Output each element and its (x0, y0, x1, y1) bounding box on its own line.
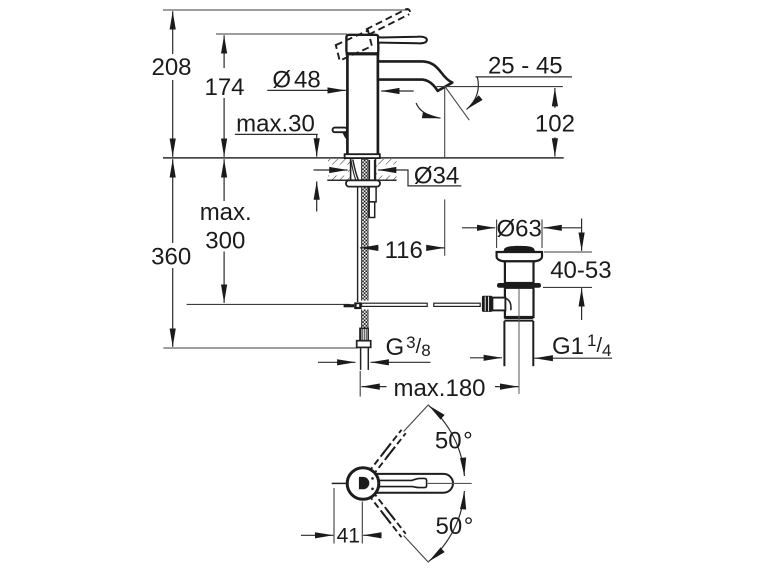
lever cap dashed (raised position) (336, 31, 372, 61)
drain seal ring (497, 283, 541, 288)
svg-text:40-53: 40-53 (550, 257, 611, 284)
svg-text:41: 41 (337, 524, 360, 547)
drain body lower (505, 288, 534, 317)
leader arc for 25-45 (467, 77, 479, 109)
svg-text:50°: 50° (435, 428, 473, 455)
top view: centerline right (428, 482, 472, 484)
extension line bottom (360) (163, 347, 358, 349)
top view: lever down extension (404, 536, 429, 563)
drain tailpipe (503, 321, 505, 366)
horizontal pop-up rod (right segment) (434, 303, 480, 306)
dimension max.180 (361, 386, 386, 388)
top view: handle inner tongue (375, 478, 427, 487)
dimension G1 1/4 (470, 357, 502, 359)
svg-text:25 - 45: 25 - 45 (488, 53, 563, 80)
dimension G3/8 (318, 361, 356, 363)
Ø34 leader and label (400, 170, 461, 186)
pop-up rod guide tube (368, 160, 370, 187)
deck line (163, 157, 564, 159)
svg-text:50°: 50° (435, 513, 473, 540)
top view: faucet body circle (347, 468, 379, 500)
G3/8 pipe (360, 347, 362, 370)
G3/8 extension line (359, 371, 361, 397)
top view: lever up extension (404, 405, 429, 432)
lever solid (378, 37, 427, 44)
svg-text:max.180: max.180 (393, 375, 485, 402)
rotation arc upper 50° (429, 405, 465, 476)
dimension 208 line (172, 11, 174, 54)
svg-text:116: 116 (385, 237, 423, 264)
white gap at rod/hose crossing (361, 301, 369, 310)
dimension max.300 line (223, 159, 225, 201)
rotation arc lower 50° (429, 491, 465, 562)
dimension 174 line (223, 35, 225, 68)
drain flange (497, 252, 542, 261)
drain body upper (505, 261, 534, 283)
faucet body (347, 54, 378, 155)
svg-text:max.: max. (200, 199, 252, 226)
braided supply hose (361, 160, 368, 329)
dimension Ø63 (462, 227, 495, 229)
deck cross-section hatch right (375, 159, 396, 180)
pull-rod knob on body (333, 128, 348, 133)
dimension 40-53 (581, 219, 583, 251)
svg-text:max.30: max.30 (236, 111, 315, 138)
svg-text:174: 174 (204, 74, 244, 101)
deck bottom line (327, 179, 396, 181)
svg-text:360: 360 (151, 244, 191, 271)
hose end knurl fitting (360, 328, 368, 340)
shank hole edges (350, 159, 352, 180)
drain flange extension lines (496, 220, 498, 249)
drain centerline lower (518, 289, 520, 394)
spout angle diagonal (445, 86, 470, 120)
locknut under deck (346, 180, 380, 186)
top view: lever dashed up (373, 433, 406, 476)
white halo for Ø34 arrows (312, 165, 348, 176)
top view: centerline left pin (332, 482, 347, 484)
drain stopper cap (504, 246, 535, 252)
drain knurled knob (482, 296, 493, 312)
top view: lever dashed down (373, 491, 406, 534)
shank funnel curve (353, 160, 359, 181)
spout (378, 61, 452, 91)
extension line top (208) (163, 9, 409, 11)
dimension 360 line (172, 159, 174, 243)
small rotation arrow at spout (416, 103, 440, 118)
top view: cartridge D mark (359, 477, 369, 489)
pop-up rod clamp pin (344, 304, 355, 307)
svg-text:Ø48: Ø48 (272, 67, 320, 94)
top view: handle (372, 474, 453, 493)
spout reference vertical line (444, 86, 446, 157)
hose nut (357, 341, 371, 348)
svg-text:208: 208 (151, 54, 191, 81)
dimension 116 (360, 247, 379, 249)
dimension 41 extension lines (333, 488, 335, 544)
pop-up rod clamp (354, 302, 361, 309)
svg-text:Ø63: Ø63 (497, 216, 542, 243)
svg-text:Ø34: Ø34 (414, 162, 459, 189)
drain centerline (518, 256, 520, 394)
extension line (max.300 bottom) (187, 303, 350, 305)
deck cross-section hatch left (328, 159, 351, 180)
svg-text:102: 102 (535, 111, 575, 138)
Ø34 arrows (314, 169, 348, 171)
faucet base plate (345, 154, 380, 158)
cartridge cap (346, 35, 378, 54)
lever dashed (raised position) (366, 9, 407, 30)
dimension 41 arrows (301, 534, 333, 536)
drain tee (492, 298, 505, 311)
horizontal pop-up rod (left segment) (362, 303, 428, 306)
dimension 102 (554, 88, 556, 108)
pop-up rod vertical (357, 186, 359, 302)
drain thread bands (504, 317, 533, 319)
extension line (174) (216, 33, 347, 35)
svg-text:300: 300 (205, 228, 245, 255)
top view: detail dots (371, 477, 374, 480)
extension line at spout tip level (437, 86, 563, 88)
